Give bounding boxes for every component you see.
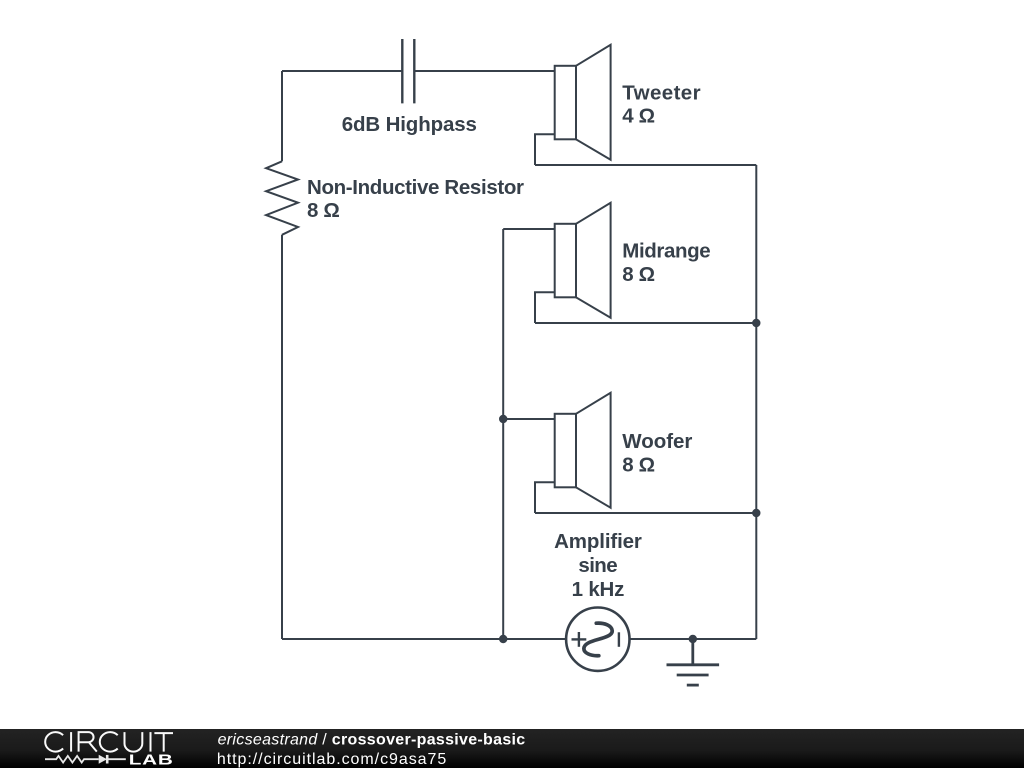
- svg-text:6dB Highpass: 6dB Highpass: [342, 113, 477, 136]
- logo CIRCUIT wordmark: [45, 732, 173, 752]
- wire right vertical: [755, 165, 757, 639]
- logo diode triangle: [99, 755, 107, 764]
- svg-text:Non-Inductive Resistor: Non-Inductive Resistor: [307, 176, 524, 199]
- speaker SPK3 Woofer rectangle: [555, 414, 576, 488]
- svg-text:8 Ω: 8 Ω: [307, 199, 340, 222]
- junction dot woofer right: [752, 509, 760, 517]
- speaker SPK1 Tweeter negative stub: [535, 134, 555, 165]
- wire bottom left: [282, 638, 566, 640]
- svg-text:http://circuitlab.com/c9asa75: http://circuitlab.com/c9asa75: [217, 751, 447, 768]
- speaker SPK2 Midrange rectangle: [555, 224, 576, 297]
- svg-text:Amplifier: Amplifier: [554, 530, 642, 553]
- speaker SPK2 Midrange cone: [576, 203, 611, 318]
- wire capacitor to tweeter: [414, 70, 554, 72]
- voltage source V1 minus sign: [618, 632, 620, 647]
- wire midrange bottom: [535, 322, 756, 324]
- voltage source V1 circle: [566, 608, 629, 671]
- ground GND: [667, 639, 720, 685]
- speaker SPK1 Tweeter rectangle: [555, 66, 576, 140]
- speaker SPK2 Midrange negative stub: [535, 292, 555, 323]
- speaker SPK3 Woofer negative stub: [535, 482, 555, 513]
- wire left vertical lower: [281, 235, 283, 639]
- junction dot branch bottom: [499, 635, 507, 643]
- voltage source V1 sine symbol: [584, 623, 612, 656]
- wire tweeter bottom to right vertical: [535, 164, 756, 166]
- resistor R1 zigzag: [266, 161, 298, 235]
- wire bottom right: [630, 638, 757, 640]
- wire woofer input: [503, 418, 555, 420]
- junction dot ground: [689, 635, 697, 643]
- svg-text:8 Ω: 8 Ω: [622, 263, 655, 286]
- svg-text:Midrange: Midrange: [622, 240, 710, 263]
- wire top from left corner to capacitor: [282, 70, 402, 72]
- speaker SPK3 Woofer cone: [576, 393, 611, 508]
- wire woofer bottom: [535, 512, 756, 514]
- capacitor C1 plates: [402, 39, 414, 103]
- svg-text:ericseastrand / crossover-pass: ericseastrand / crossover-passive-basic: [218, 732, 526, 749]
- wire left vertical upper: [281, 71, 283, 161]
- wire midrange input: [503, 228, 555, 230]
- junction dot midrange right: [752, 319, 760, 327]
- wire branch vertical: [502, 229, 504, 639]
- junction dot woofer branch: [499, 415, 507, 423]
- voltage source V1 plus sign: [572, 632, 587, 647]
- svg-text:sine: sine: [578, 554, 617, 577]
- svg-text:4 Ω: 4 Ω: [622, 105, 655, 128]
- svg-text:Tweeter: Tweeter: [622, 81, 700, 104]
- svg-text:Woofer: Woofer: [622, 430, 692, 453]
- speaker SPK1 Tweeter cone: [576, 45, 611, 160]
- logo resistor-diode squiggle: [45, 755, 126, 764]
- svg-text:1 kHz: 1 kHz: [572, 578, 625, 601]
- svg-text:LAB: LAB: [129, 751, 174, 768]
- svg-text:8 Ω: 8 Ω: [622, 453, 655, 476]
